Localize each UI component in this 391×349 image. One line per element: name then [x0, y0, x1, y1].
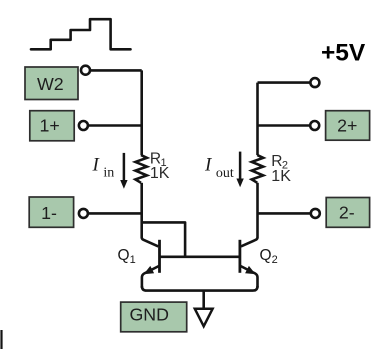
Q2 collector lead	[241, 237, 258, 246]
svg-text:1-: 1-	[41, 203, 57, 223]
base rail between Q1 and Q2	[161, 255, 240, 258]
svg-text:1+: 1+	[39, 116, 59, 136]
svg-text:Q: Q	[260, 247, 272, 264]
svg-text:+5V: +5V	[321, 40, 366, 67]
svg-text:GND: GND	[129, 305, 169, 325]
label I_out	[204, 155, 234, 182]
terminal circle W2	[81, 66, 90, 75]
terminal box 1-	[29, 197, 73, 227]
right rail upper vertical	[256, 83, 259, 156]
terminal circle 2-	[311, 209, 320, 218]
wire collector-base tie of Q1	[142, 222, 185, 256]
svg-text:Q: Q	[118, 247, 130, 264]
wire 2+ terminal to right rail	[258, 124, 311, 127]
transistor Q2	[240, 237, 258, 287]
resistor R2	[252, 155, 264, 183]
terminal box GND	[121, 302, 187, 332]
wire left rail upper vertical	[140, 70, 143, 155]
terminal circle 2+	[310, 121, 319, 130]
wire W2 terminal to left rail	[90, 69, 142, 72]
wire 1+ terminal to left rail	[88, 124, 142, 127]
Q2 emitter lead	[241, 266, 258, 288]
Q1 emitter arrow	[144, 266, 155, 274]
wire 1- terminal to left rail	[88, 212, 142, 215]
emitter rail	[142, 286, 258, 291]
svg-text:1K: 1K	[271, 168, 291, 185]
wire left rail lower vertical	[140, 183, 143, 238]
Q1 base bar	[158, 240, 161, 273]
current arrow I_out	[236, 152, 243, 188]
transistor Q1	[142, 237, 160, 287]
terminal box 2-	[326, 198, 369, 228]
staircase waveform source symbol	[31, 19, 131, 49]
svg-text:I: I	[92, 155, 101, 176]
Q2 emitter arrow	[245, 266, 256, 274]
wire ground stem	[202, 291, 205, 309]
wire +5V terminal to right rail	[258, 81, 311, 84]
label I_in	[92, 155, 115, 181]
terminal circle 1-	[79, 209, 88, 218]
R1 value label	[150, 150, 170, 182]
terminal circle 1+	[79, 121, 88, 130]
svg-text:I: I	[204, 155, 213, 176]
svg-text:2: 2	[272, 254, 278, 266]
ground symbol	[195, 309, 213, 327]
Q2 base bar	[238, 240, 241, 273]
right rail lower vertical	[256, 183, 259, 238]
svg-text:1: 1	[130, 254, 136, 266]
R2 value label	[271, 153, 291, 185]
label Q2	[260, 247, 278, 266]
resistor R1	[135, 155, 147, 183]
crop artifact border tick bottom-left	[0, 330, 2, 349]
wire 2- terminal to right rail	[258, 212, 311, 215]
terminal box 2+	[326, 111, 370, 141]
terminal circle +5V	[310, 78, 319, 87]
Q1 emitter lead	[142, 266, 159, 288]
svg-text:1K: 1K	[150, 165, 170, 182]
svg-text:2+: 2+	[337, 116, 357, 136]
svg-text:W2: W2	[37, 74, 64, 94]
current arrow I_in	[120, 153, 127, 189]
terminal box W2	[25, 67, 78, 100]
Q1 collector lead	[142, 237, 159, 246]
label Q1	[118, 247, 136, 266]
svg-text:2-: 2-	[339, 203, 355, 223]
svg-text:out: out	[216, 166, 234, 181]
svg-text:in: in	[103, 166, 114, 181]
terminal box 1+	[30, 111, 74, 141]
